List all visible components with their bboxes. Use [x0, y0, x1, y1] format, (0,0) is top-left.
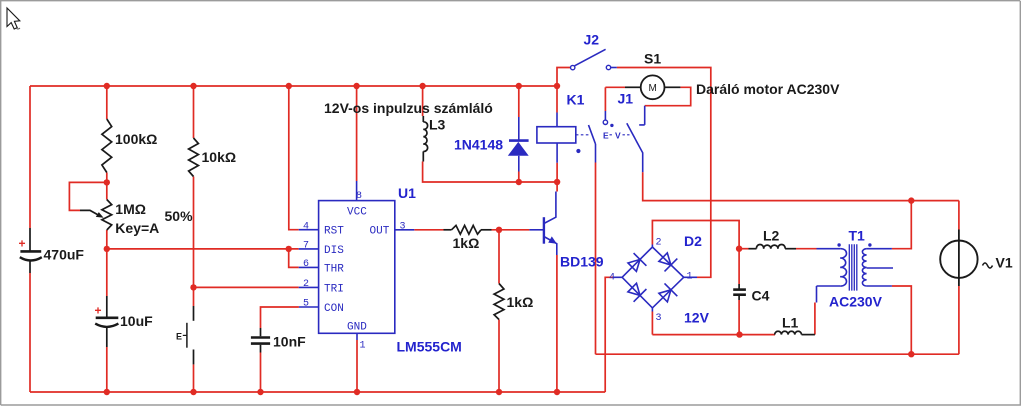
U1 pin 6 THR stub [299, 266, 319, 268]
diode D1 1N4148 leads [518, 117, 520, 141]
svg-text:10nF: 10nF [273, 334, 306, 350]
svg-text:Key=A: Key=A [115, 220, 159, 236]
transformer T1 core [849, 244, 857, 290]
switch J2 terminal circles [571, 65, 575, 69]
wire: RST branch from top rail [289, 86, 299, 230]
transistor Q1 emitter arrow [548, 236, 557, 243]
svg-text:1kΩ: 1kΩ [453, 235, 480, 251]
switch J1 pole2 fixed lead [639, 106, 645, 125]
mouse cursor [7, 8, 20, 29]
svg-text:4: 4 [303, 222, 309, 233]
svg-text:8: 8 [356, 191, 362, 202]
svg-text:RST: RST [324, 226, 344, 238]
wire: top +12V rail y=86 [30, 85, 557, 87]
svg-text:1kΩ: 1kΩ [507, 294, 534, 310]
voltage source V1 vertical line [958, 230, 960, 287]
wire: C4 top red part [738, 249, 740, 284]
wire: transformer secondary top red part [892, 201, 911, 249]
bridge diode upper-right [659, 253, 671, 265]
svg-text:V1: V1 [996, 255, 1013, 271]
wire: 10k bottom down to key E [193, 177, 195, 307]
bridge D2 pin stubs [613, 245, 697, 312]
resistor R4 1kOhm series [444, 229, 452, 231]
svg-text:VCC: VCC [347, 207, 367, 219]
wire: V1 top stub [958, 201, 960, 230]
relay K1 coil box [537, 127, 576, 143]
svg-text:BD139: BD139 [560, 254, 604, 270]
wire: L1 right up to primary bottom [814, 303, 816, 335]
bridge diode lower-left [628, 283, 640, 295]
svg-text:6: 6 [303, 259, 309, 270]
svg-text:TRI: TRI [324, 284, 344, 296]
junction dot TRI net [190, 284, 196, 290]
wire: L3 bottom / collector net horizontal y=182 [423, 162, 557, 183]
U1 pin 7 DIS stub [299, 248, 319, 250]
junction dot pot node [104, 179, 110, 185]
motor S1 leads [625, 86, 641, 88]
switch J2 arm [575, 49, 606, 66]
svg-text:470uF: 470uF [44, 247, 85, 263]
switch J1 pole1 contact dot [610, 124, 613, 127]
wire: motor right loop to J1 pole2 fixed [645, 87, 691, 105]
potentiometer wiper arrow [80, 210, 101, 216]
svg-text:D2: D2 [684, 233, 702, 249]
inductor L2 [749, 248, 757, 250]
junction dots collector net y=182 [516, 179, 522, 185]
svg-text:S1: S1 [644, 51, 661, 67]
svg-text:1: 1 [360, 341, 366, 352]
svg-text:L2: L2 [763, 228, 780, 244]
svg-text:3: 3 [656, 313, 662, 324]
svg-text:DIS: DIS [324, 245, 344, 257]
wire: CON wire to 10nF [261, 307, 299, 328]
wire: emitter down to bottom rail [556, 255, 558, 392]
wire: bridge pin3 down to bottom box [651, 312, 653, 335]
transistor Q1 base lead [529, 229, 544, 231]
capacitor C1 470uF [29, 228, 31, 251]
wire: bottom rail right end up to bridge pin4 [605, 277, 613, 392]
svg-text:3: 3 [400, 222, 406, 233]
transformer T1 secondary bottom lead [867, 285, 892, 287]
switch J1 pole1 terminal circle [603, 120, 607, 124]
switch J1 pole2 arm [627, 123, 643, 172]
wire: 100k bottom to pot node [106, 173, 108, 200]
svg-text:4: 4 [609, 273, 615, 284]
transistor Q1 emitter [544, 237, 557, 256]
svg-text:THR: THR [324, 264, 344, 276]
wire: pot wiper loop [69, 182, 106, 210]
svg-text:E: E [176, 332, 182, 342]
U1 pin 8 VCC stub [356, 181, 358, 201]
U1 pin 3 OUT stub [395, 229, 415, 231]
junction dot OUT node [496, 227, 502, 233]
svg-text:10uF: 10uF [120, 313, 153, 329]
U1 pin 2 TRI stub [299, 286, 319, 288]
svg-text:1N4148: 1N4148 [454, 137, 503, 153]
wire: K1 contact down x=595.5 [595, 163, 597, 355]
wire: 10nF bottom to rail [260, 353, 262, 393]
wire: V1 bottom to return rail [958, 286, 960, 354]
svg-text:2: 2 [656, 238, 662, 249]
wire: key E bottom to bottom rail [193, 364, 195, 392]
capacitor C2 10uF [106, 296, 108, 318]
bridge diode lower-right [659, 290, 671, 302]
wire: bridge top box to L2/C4 node [652, 221, 739, 249]
wire: relay coil bottom stub red part [556, 163, 558, 192]
relay K1 coil top lead [556, 113, 558, 127]
diode D1 1N4148 triangle [508, 142, 529, 156]
svg-text:10kΩ: 10kΩ [202, 149, 237, 165]
wire: 1k to base node [492, 229, 530, 231]
svg-text:U1: U1 [398, 185, 416, 201]
relay K1 dashed link [576, 134, 589, 136]
junction dots on top rail [104, 83, 110, 89]
svg-text:J1: J1 [618, 91, 634, 107]
relay K1 fixed contact dot [576, 149, 580, 153]
svg-text:L3: L3 [429, 117, 446, 133]
wire: bottom return rail y=354.2 [596, 353, 959, 355]
svg-text:7: 7 [303, 241, 309, 252]
wire: left rail x=30 below 470uF to bottom rail [29, 273, 31, 392]
U1 pin 4 RST stub [299, 229, 319, 231]
wire: pot bottom to DIS node to 10uF [106, 230, 108, 296]
relay K1 contact bottom lead [595, 144, 597, 163]
wire: 1N4148 top stub [518, 86, 520, 117]
inductor L3 [422, 116, 424, 122]
svg-text:K1: K1 [567, 92, 585, 108]
svg-text:12V: 12V [684, 310, 710, 326]
wire: DIS/THR net horizontal y=248.9 [107, 248, 299, 250]
svg-text:+: + [19, 237, 26, 251]
svg-text:OUT: OUT [370, 226, 390, 238]
svg-text:T1: T1 [849, 228, 866, 244]
bridge rectifier D2 diamond [622, 247, 684, 308]
wire: L3 branch top stub [422, 86, 424, 116]
svg-text:1: 1 [687, 272, 693, 283]
wire: 1N4148 bottom stub [518, 172, 520, 183]
capacitor C4 [738, 284, 740, 289]
transformer T1 secondary coil [862, 249, 866, 286]
relay K1 contact arm [589, 125, 596, 144]
op-amp U1 LM555CM box [319, 201, 395, 334]
wire: motor left lead red [605, 86, 625, 88]
key E pushbutton [193, 306, 195, 321]
relay K1 coil bottom lead [556, 143, 558, 163]
bridge diode upper-left [628, 259, 640, 271]
junction dot V1 top net [908, 197, 914, 203]
wire: 10uF bottom to bottom rail [106, 347, 108, 392]
wire: 10k branch top stub x=193.5 [193, 86, 195, 138]
svg-text:CON: CON [324, 303, 344, 315]
switch J1 pole1 lead [604, 111, 606, 120]
inductor L1 [775, 331, 802, 334]
svg-text:L1: L1 [782, 315, 799, 331]
motor S1 circle [641, 75, 665, 99]
svg-text:C4: C4 [752, 288, 770, 304]
svg-text:2: 2 [303, 279, 309, 290]
voltage source V1 circle [940, 241, 977, 278]
wire: L2 right to transformer primary [796, 248, 817, 250]
transformer T1 primary coil [817, 248, 841, 250]
junction dot L2/C4 node [736, 246, 742, 252]
junction dots DIS net [104, 246, 110, 252]
resistor R1 100kOhm [102, 119, 112, 173]
wire: motor left drop to J1 pole1 [604, 87, 606, 111]
V1 squiggle [983, 263, 993, 268]
svg-text:50%: 50% [165, 208, 194, 224]
svg-text:100kΩ: 100kΩ [115, 131, 157, 147]
wire: L2 left stub [739, 248, 748, 250]
wire: left rail x=30 (top red part down to 470uF) [29, 86, 31, 228]
transformer T1 secondary mid tap [867, 267, 893, 269]
wire: J1 pole2 arm down and across to V1 y=200.6 [643, 172, 959, 201]
transistor Q1 collector [544, 192, 556, 224]
wire: rail corner up to J2 left [557, 68, 571, 87]
svg-text:LM555CM: LM555CM [397, 339, 462, 355]
junction dot C4/L1 node [736, 331, 742, 337]
switch J1/K1 E-V dashed link [610, 134, 632, 136]
svg-text:GND: GND [347, 322, 367, 334]
svg-text:E: E [603, 131, 609, 141]
transistor Q1 BD139 base bar [543, 217, 545, 244]
wire: L1 left stub [740, 334, 776, 336]
resistor R5 1kOhm pulldown [494, 284, 504, 320]
wire: 100k branch top stub x=106.8 [106, 86, 108, 119]
wire: bridge bottom box to C4/L1 node [652, 334, 739, 336]
junction dots bottom rail [104, 389, 110, 395]
wire: TRI wire y=287.4 [194, 286, 299, 288]
U1 pin 5 CON stub [299, 306, 319, 308]
wire: GND pin1 to rail [356, 340, 358, 392]
U1 pin 1 GND stub [356, 333, 358, 340]
transformer T1 secondary top lead [867, 248, 892, 250]
capacitor C3 10nF [260, 328, 262, 336]
wire: C4 bottom red part [738, 300, 740, 335]
svg-text:5: 5 [303, 299, 309, 310]
wire: relay coil top feed from rail [556, 86, 558, 113]
potentiometer R3 1MOhm body [102, 200, 112, 231]
wire: transformer secondary bottom red part [892, 286, 911, 354]
wire: base node down to pulldown 1k [498, 230, 500, 284]
svg-text:1MΩ: 1MΩ [115, 201, 146, 217]
svg-text:Daráló motor AC230V: Daráló motor AC230V [696, 81, 840, 97]
switch J2 terminal stubs [611, 67, 617, 69]
diode D1 1N4148 cathode bar [509, 139, 529, 142]
svg-text:V: V [615, 131, 621, 141]
wire: bottom 0V rail y=392 [30, 391, 605, 393]
junction dot V1 bottom net [908, 351, 914, 357]
svg-text:J2: J2 [584, 32, 600, 48]
wire: pulldown 1k to bottom rail [498, 320, 500, 393]
resistor R2 10kOhm [189, 138, 199, 177]
svg-text:+: + [95, 304, 102, 318]
transformer T1 phasing dots [837, 243, 840, 246]
svg-text:M: M [649, 83, 657, 94]
wire: VCC pin8 from top rail [356, 86, 358, 181]
svg-text:12V-os inpulzus számláló: 12V-os inpulzus számláló [324, 100, 493, 116]
svg-text:AC230V: AC230V [829, 294, 883, 310]
wire: DIS to THR link [289, 249, 299, 268]
wire: OUT to 1k [414, 229, 443, 231]
wire: J2 right to bridge pin1 vertical x=710.8 [617, 68, 711, 278]
